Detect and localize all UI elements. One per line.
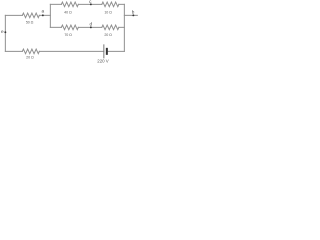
wire right rail: [123, 4, 125, 51]
resistor R5 20 ohm: [102, 25, 119, 30]
resistor R6 20 ohm: [22, 49, 39, 54]
battery plate long: [103, 44, 105, 58]
wire bottom left: [5, 50, 22, 52]
svg-text:50 Ω: 50 Ω: [26, 21, 34, 25]
wire left rail: [4, 15, 6, 51]
node b dot: [132, 14, 134, 16]
resistor R4 70 ohm: [61, 25, 78, 30]
wire bottom branch right: [119, 26, 125, 28]
node d dot: [90, 26, 92, 28]
wire stub node b: [124, 14, 137, 16]
svg-text:d: d: [89, 22, 92, 27]
svg-text:a: a: [41, 9, 44, 14]
resistor R1 50 ohm: [22, 13, 39, 18]
wire top branch middle: [78, 3, 102, 5]
wire bottom middle: [39, 50, 104, 52]
battery plate short thick: [106, 48, 108, 55]
svg-text:70 Ω: 70 Ω: [64, 33, 72, 37]
svg-text:20 Ω: 20 Ω: [104, 33, 112, 37]
node a dot: [42, 14, 44, 16]
wire bottom right: [107, 50, 125, 52]
svg-text:c: c: [89, 0, 92, 4]
svg-text:b: b: [132, 9, 135, 14]
wire bottom branch left: [50, 26, 61, 28]
wire top branch left: [50, 3, 61, 5]
svg-text:10 Ω: 10 Ω: [104, 11, 112, 15]
svg-text:220 V: 220 V: [97, 59, 109, 64]
svg-text:20 Ω: 20 Ω: [26, 56, 34, 60]
wire top branch right: [119, 3, 125, 5]
wire junction column: [49, 4, 51, 27]
resistor R2 40 ohm: [61, 2, 78, 7]
svg-text:40 Ω: 40 Ω: [64, 11, 72, 15]
wire top-left: [5, 14, 22, 16]
wire bottom branch middle: [78, 26, 102, 28]
node e dot: [4, 31, 6, 33]
node c dot: [90, 3, 92, 5]
resistor R3 10 ohm: [102, 2, 119, 7]
wire node a segment: [39, 14, 50, 16]
svg-text:e: e: [1, 29, 4, 34]
